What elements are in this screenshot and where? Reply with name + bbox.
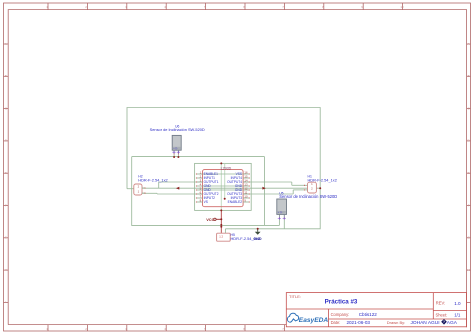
svg-text:L293D: L293D bbox=[221, 166, 232, 170]
svg-text:F: F bbox=[5, 203, 7, 207]
svg-text:10: 10 bbox=[400, 5, 404, 9]
svg-text:C: C bbox=[468, 106, 470, 110]
svg-text:B: B bbox=[5, 74, 7, 78]
svg-text:Sheet:: Sheet: bbox=[436, 312, 448, 317]
svg-text:HDR-F-2.54_1x2: HDR-F-2.54_1x2 bbox=[138, 177, 167, 182]
svg-text:B: B bbox=[468, 74, 470, 78]
svg-text:GND: GND bbox=[253, 237, 262, 241]
svg-text:E: E bbox=[468, 171, 470, 175]
svg-text:H: H bbox=[5, 268, 7, 272]
svg-text:Cbtis122: Cbtis122 bbox=[359, 312, 378, 317]
svg-text:D: D bbox=[468, 139, 470, 143]
svg-text:H: H bbox=[468, 268, 470, 272]
svg-text:Drawn By:: Drawn By: bbox=[387, 320, 405, 325]
svg-text:REV:: REV: bbox=[436, 301, 445, 306]
svg-text:E: E bbox=[5, 171, 7, 175]
svg-text:A: A bbox=[468, 42, 470, 46]
svg-text:+ {}-: + {}- bbox=[278, 211, 283, 214]
svg-text:+ {}-: + {}- bbox=[173, 147, 178, 150]
svg-text:Company:: Company: bbox=[331, 312, 350, 317]
svg-text:Práctica #3: Práctica #3 bbox=[325, 298, 358, 305]
svg-text:Date:: Date: bbox=[331, 320, 341, 325]
svg-text:EasyEDA: EasyEDA bbox=[299, 317, 329, 324]
svg-text:HDR-F-2.54_1x2: HDR-F-2.54_1x2 bbox=[308, 177, 337, 182]
svg-text:1.0: 1.0 bbox=[454, 301, 461, 306]
svg-text:C: C bbox=[5, 106, 7, 110]
svg-text:TITLE:: TITLE: bbox=[289, 294, 301, 299]
svg-text:JOHAN AGUI: JOHAN AGUI bbox=[411, 320, 440, 326]
svg-text:VS: VS bbox=[204, 200, 208, 204]
svg-text:Sensor de Inclinación SW-520D: Sensor de Inclinación SW-520D bbox=[279, 194, 337, 199]
svg-text:D: D bbox=[5, 139, 7, 143]
svg-text:Sensor de Inclinación SW-520D: Sensor de Inclinación SW-520D bbox=[150, 127, 205, 132]
svg-text:F: F bbox=[468, 203, 470, 207]
svg-text:AGA: AGA bbox=[447, 320, 458, 326]
svg-text:1 2: 1 2 bbox=[219, 235, 223, 239]
svg-text:?: ? bbox=[443, 320, 445, 324]
svg-text:1/1: 1/1 bbox=[454, 312, 461, 317]
svg-text:2021-06-03: 2021-06-03 bbox=[346, 320, 370, 325]
svg-text:A: A bbox=[5, 42, 7, 46]
svg-text:ENABLE2: ENABLE2 bbox=[228, 200, 243, 204]
